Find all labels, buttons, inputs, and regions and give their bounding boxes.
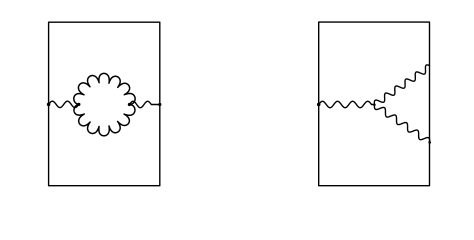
vertex dot loop-right [128,103,131,106]
photon line left [49,101,79,107]
photon line lower [374,105,429,143]
box right diagram [319,22,430,186]
photon line upper [374,65,429,105]
vertex dot right-edge [158,103,161,106]
vertex dot left-edge [47,103,51,107]
vertex dot lower-end [428,141,431,144]
vertex dot loop-left [77,103,80,106]
vertex dot center [373,103,376,106]
photon loop [74,73,135,135]
vertex dot edge right-diagram [317,103,321,107]
box left diagram [49,22,160,186]
photon line incoming [319,101,375,107]
photon line right [129,101,159,107]
